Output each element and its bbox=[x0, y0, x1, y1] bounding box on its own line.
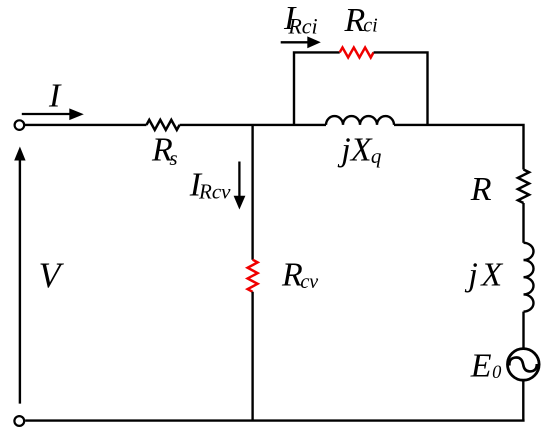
terminal top-left bbox=[15, 120, 25, 130]
svg-text:IRci: IRci bbox=[283, 0, 318, 38]
wire from Rs to inductor jXq bbox=[180, 124, 326, 126]
wire from E0 to bottom bbox=[522, 380, 524, 420]
source E0 circle bbox=[508, 349, 540, 381]
arrowhead I (right) bbox=[69, 108, 84, 120]
svg-text:I: I bbox=[48, 78, 62, 115]
svg-text:V: V bbox=[39, 255, 65, 295]
wire V arrow shaft bbox=[19, 158, 21, 404]
svg-text:IRcv: IRcv bbox=[189, 167, 231, 204]
wire current IRci arrow shaft bbox=[281, 41, 309, 43]
inductor jX bbox=[524, 243, 534, 312]
wire current I arrow shaft bbox=[22, 113, 71, 115]
source E0 sine wave bbox=[509, 357, 536, 371]
wire bottom bbox=[25, 419, 524, 421]
wire between R and jX bbox=[522, 203, 524, 243]
resistor Rci (red) bbox=[340, 48, 374, 58]
svg-text:E0: E0 bbox=[470, 348, 502, 385]
arrowhead IRcv (down) bbox=[234, 196, 246, 210]
svg-text:Rs: Rs bbox=[151, 131, 178, 170]
svg-text:jX: jX bbox=[464, 257, 503, 294]
wire middle branch lower bbox=[251, 292, 253, 421]
inductor jXq bbox=[326, 116, 394, 125]
wire from jXq to right corner and down to R bbox=[394, 125, 524, 170]
terminal bottom-left bbox=[14, 416, 24, 426]
svg-text:R: R bbox=[470, 171, 492, 208]
arrowhead IRci (right) bbox=[307, 36, 321, 48]
resistor Rcv (red) bbox=[248, 260, 258, 292]
wire current IRcv arrow shaft bbox=[238, 162, 240, 198]
wire between jX and E0 bbox=[522, 312, 524, 349]
resistor R bbox=[518, 170, 529, 204]
wire parallel box top-right segment and right vertical bbox=[374, 52, 428, 125]
resistor Rs bbox=[147, 120, 180, 130]
arrowhead V (up) bbox=[14, 147, 25, 161]
svg-text:Rci: Rci bbox=[344, 2, 378, 39]
svg-text:Rcv: Rcv bbox=[281, 257, 318, 294]
wire middle branch upper bbox=[251, 125, 253, 260]
svg-text:jXq: jXq bbox=[337, 132, 382, 169]
wire parallel box left vertical and top-left segment bbox=[294, 52, 340, 125]
wire top from left terminal to Rs bbox=[25, 124, 147, 126]
